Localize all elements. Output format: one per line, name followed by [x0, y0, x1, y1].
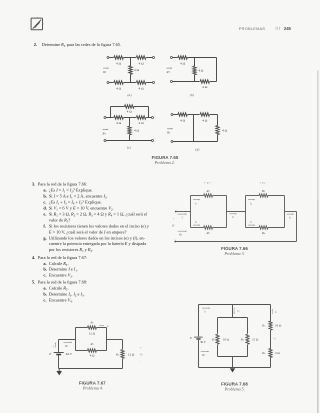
svg-text:4 Ω: 4 Ω	[139, 61, 145, 65]
fig7.65(a) resistor 4ohm middle vertical	[129, 66, 132, 75]
fig7.65(b) top-left terminal	[170, 57, 172, 59]
fig7.65(c) right terminal main row	[152, 117, 154, 119]
svg-text:3.: 3.	[32, 182, 35, 187]
fig7.65(a) bottom wire left	[109, 82, 114, 84]
svg-text:a.: a.	[43, 261, 46, 266]
fig7.66 exit wire	[285, 211, 297, 213]
fig7.67 top wire from source	[59, 339, 76, 341]
exercise pencil icon box	[31, 18, 42, 30]
fig7.65(a) middle vertical wire lower	[130, 74, 132, 82]
fig7.67 bottom wire	[59, 368, 123, 370]
svg-text:36 V: 36 V	[200, 340, 207, 344]
fig7.65(b) bottom-left terminal	[170, 81, 172, 83]
fig7.66 bottom terminal	[174, 241, 176, 243]
fig7.68 resistor R3 10ohm	[269, 321, 272, 330]
fig7.68 outer left edge upper wire	[198, 305, 200, 337]
fig7.65(c) resistor 4ohm middle vertical	[128, 126, 131, 135]
svg-text:Calcule RT.: Calcule RT.	[49, 261, 69, 267]
fig7.68 inner block left edge upper	[217, 318, 219, 334]
fig7.65(a) top wire middle	[124, 57, 137, 59]
fig7.67 ground arrow below battery	[58, 369, 60, 372]
fig7.66 right block right edge	[284, 196, 286, 228]
fig7.66 RT arrow label	[178, 230, 187, 232]
fig7.65(d) top wire left	[173, 114, 178, 116]
fig7.67 block left edge	[75, 328, 77, 351]
fig7.65(b) RT label	[167, 67, 173, 69]
svg-text:Para la red de la figura 7.68:: Para la red de la figura 7.68:	[38, 280, 87, 285]
fig7.65(a) resistor 4ohm bottom-left	[114, 81, 123, 84]
fig7.67 RT arrow label	[64, 341, 73, 343]
fig7.66 current I6 arrow	[287, 213, 294, 215]
fig7.66 right block bottom edge with resistor R4	[246, 227, 260, 229]
fig7.65(d) top-left terminal	[171, 114, 173, 116]
fig7.65(b) right edge wire	[216, 58, 218, 82]
svg-text:c.: c.	[43, 273, 46, 278]
svg-text:12 Ω: 12 Ω	[128, 352, 135, 356]
svg-text:Para la red de la figura 7.67:: Para la red de la figura 7.67:	[38, 255, 87, 260]
svg-text:e.: e.	[43, 212, 46, 217]
fig7.67 left edge upper wire	[58, 340, 60, 353]
fig7.66 source current I arrow	[178, 213, 187, 215]
fig7.68 outer right edge middle wire	[270, 330, 272, 349]
fig7.68 outer bottom wire	[199, 367, 271, 369]
svg-text:4.: 4.	[32, 255, 35, 260]
svg-text:4 Ω: 4 Ω	[116, 121, 122, 125]
fig7.65(c) middle vertical wire upper	[129, 118, 131, 127]
svg-text:5.: 5.	[32, 280, 35, 285]
fig7.65(b) top wire to corner	[187, 57, 216, 59]
svg-text:12 Ω: 12 Ω	[89, 332, 96, 336]
svg-text:d.: d.	[43, 206, 47, 211]
svg-text:valor de R5?: valor de R5?	[49, 217, 70, 223]
fig7.65(b) resistor 4ohm middle vertical	[193, 66, 196, 75]
fig7.65(d) resistor 4ohm top-left	[178, 113, 187, 116]
running head separator	[275, 27, 278, 30]
page right-edge shadow line	[317, 71, 318, 413]
fig7.65(d) top wire middle	[188, 114, 200, 116]
svg-text:f.: f.	[43, 223, 46, 228]
fig7.66 current I3 arrow	[230, 213, 237, 215]
svg-text:Si los resistores tienen los v: Si los resistores tienen los valores dad…	[49, 223, 150, 228]
fig7.68 current I2 arrow	[271, 309, 273, 314]
svg-text:a.: a.	[43, 286, 46, 291]
svg-text:Problema 5.: Problema 5.	[224, 386, 245, 391]
svg-text:por los resistores R1 y R2.: por los resistores R1 y R2.	[49, 247, 93, 253]
svg-text:4 Ω: 4 Ω	[139, 121, 145, 125]
svg-text:4 Ω: 4 Ω	[116, 61, 122, 65]
fig7.66 feed wire	[176, 211, 191, 213]
fig7.68 RT arrow label	[201, 350, 209, 352]
fig7.68 resistor R1 10ohm	[216, 334, 219, 344]
fig7.65(c) resistor 4ohm main-right	[136, 116, 145, 119]
fig7.65(b) bottom wire right	[210, 81, 217, 83]
fig7.65(a) bottom-right terminal	[153, 82, 155, 84]
svg-text:+ V2 −: + V2 −	[259, 181, 267, 185]
fig7.67 source current I arrow	[54, 343, 56, 348]
svg-text:Encuentre V4.: Encuentre V4.	[49, 297, 73, 303]
fig7.66 left block bottom edge with resistor R2	[191, 227, 204, 229]
fig7.65(d) top wire to corner	[210, 114, 218, 116]
fig7.68 bottom stub with arrow	[232, 357, 234, 368]
fig7.66 connecting wire between blocks	[227, 211, 246, 213]
fig7.66 left block left edge	[190, 196, 192, 228]
fig7.66 current I1 arrow	[193, 199, 200, 201]
fig7.65(a) top wire right	[146, 57, 152, 59]
svg-text:4 Ω: 4 Ω	[202, 85, 208, 89]
fig7.67 block bottom edge with resistor R2 4ohm	[76, 350, 88, 352]
svg-text:c.: c.	[43, 200, 46, 205]
fig7.66 right return wire down	[296, 212, 298, 242]
fig7.65(c) loop right vertical	[148, 107, 150, 118]
fig7.65(b) vertical resistor wire lower	[194, 75, 196, 82]
svg-text:¿Es I = I1 = I2? Explique.: ¿Es I = I1 = I2? Explique.	[49, 188, 93, 194]
fig7.68 inner block right edge upper	[247, 318, 249, 334]
fig7.65(b) top wire left	[172, 57, 178, 59]
svg-text:10 Ω: 10 Ω	[275, 324, 282, 328]
fig7.66 top feed terminal	[175, 211, 177, 213]
svg-text:+ V1 −: + V1 −	[204, 181, 212, 185]
fig7.65(d) middle vertical wire	[193, 115, 195, 142]
fig7.65(c) main wire middle	[124, 117, 137, 119]
fig7.65(b) resistor 4ohm top	[178, 56, 187, 59]
svg-text:4 Ω: 4 Ω	[116, 86, 122, 90]
fig7.65(d) right edge lower wire	[217, 135, 219, 142]
svg-text:Calcule RT.: Calcule RT.	[49, 286, 69, 292]
svg-text:4 Ω: 4 Ω	[139, 86, 145, 90]
fig7.65(a) top wire left	[109, 57, 114, 59]
svg-text:4 Ω: 4 Ω	[127, 110, 133, 114]
svg-text:15 Ω: 15 Ω	[252, 337, 259, 341]
fig7.65(b) vertical resistor wire upper	[194, 58, 196, 67]
svg-text:64 V: 64 V	[66, 352, 73, 356]
fig7.68 outer left edge lower wire	[198, 340, 200, 368]
svg-text:4 Ω: 4 Ω	[90, 353, 95, 357]
svg-text:Problema 3.: Problema 3.	[224, 251, 245, 256]
fig7.68 outer right edge lower wire	[270, 357, 272, 367]
fig7.65(b) bottom wire left	[172, 81, 199, 83]
fig7.65(a) top-left terminal	[107, 57, 109, 59]
fig7.66 current I4 arrow	[248, 199, 255, 201]
svg-text:Para la red de la figura 7.66:: Para la red de la figura 7.66:	[38, 182, 87, 187]
svg-text:c.: c.	[43, 297, 46, 302]
svg-text:b.: b.	[43, 291, 47, 296]
fig7.65(c) middle vertical wire lower	[129, 135, 131, 141]
svg-text:245: 245	[284, 26, 292, 31]
svg-text:4 Ω: 4 Ω	[180, 119, 186, 123]
fig7.65(a) resistor 4ohm bottom-right	[136, 81, 145, 84]
svg-text:Problema 2.: Problema 2.	[154, 160, 175, 165]
fig7.68 inner block right edge lower	[247, 345, 249, 357]
fig7.68 outer right edge upper wire	[270, 305, 272, 322]
fig7.68 battery E 36V	[194, 336, 202, 338]
fig7.65(c) resistor 4ohm main-left	[114, 116, 123, 119]
fig7.68 inner block bottom edge	[218, 356, 248, 358]
svg-text:2 Ω: 2 Ω	[275, 351, 280, 355]
fig7.65(c) main wire left	[106, 117, 114, 119]
fig7.65(a) bottom wire middle	[124, 82, 137, 84]
pencil diagonal inside icon	[33, 20, 41, 29]
svg-text:4 Ω: 4 Ω	[180, 61, 186, 65]
svg-text:4 Ω: 4 Ω	[134, 129, 140, 133]
fig7.66 right block top edge with resistor R3	[246, 195, 260, 197]
fig7.66 bottom return wire	[175, 241, 296, 243]
fig7.66 right block left edge	[245, 196, 247, 228]
fig7.68 resistor R2 15ohm	[246, 334, 249, 344]
fig7.65(a) top-right terminal	[153, 57, 155, 59]
svg-text:4 Ω: 4 Ω	[222, 128, 228, 132]
fig7.65(c) RT label	[103, 128, 109, 130]
svg-text:4 Ω: 4 Ω	[134, 68, 140, 72]
svg-text:cuentre la potencia entregada: cuentre la potencia entregada por la bat…	[49, 241, 146, 246]
fig7.65(d) RT label	[167, 128, 173, 130]
fig7.68 resistor R4 2ohm	[269, 349, 272, 358]
svg-text:Encuentre V3.: Encuentre V3.	[49, 273, 73, 279]
fig7.65(d) bottom-left terminal	[171, 141, 173, 143]
fig7.67 left edge lower wire	[58, 355, 60, 368]
fig7.67 battery E 64V	[54, 352, 64, 354]
fig7.67 right edge upper wire	[122, 340, 124, 350]
svg-text:Problema 4.: Problema 4.	[82, 385, 103, 390]
svg-text:Determine RT para las redes de: Determine RT para las redes de la figura…	[42, 42, 121, 48]
svg-text:¿Es I1 + I2 = I4 + I5? Expliqu: ¿Es I1 + I2 = I4 + I5? Explique.	[49, 200, 102, 206]
fig7.65(c) loop top edge with resistor	[111, 106, 125, 108]
fig7.68 top stub to inner block	[232, 305, 234, 318]
fig7.65(d) resistor 4ohm right vertical	[216, 126, 219, 135]
fig7.65(b) resistor 4ohm bottom	[200, 80, 209, 83]
fig7.65(c) loop left vertical	[110, 107, 112, 118]
fig7.65(a) middle vertical wire upper	[130, 58, 132, 66]
fig7.68 outer top wire	[199, 304, 271, 306]
fig7.67 block top edge with resistor R1 12ohm	[76, 327, 88, 329]
fig7.67 right edge lower wire	[122, 359, 124, 369]
svg-text:4 Ω: 4 Ω	[198, 69, 204, 73]
fig7.65(a) RT label	[103, 67, 109, 69]
fig7.68 current I1 arrow	[202, 307, 210, 309]
fig7.65(d) resistor 4ohm top-right	[200, 113, 209, 116]
fig7.65(a) resistor 4ohm top-right	[136, 56, 145, 59]
fig7.68 inner block top edge	[218, 317, 248, 319]
svg-text:g.: g.	[43, 235, 46, 240]
fig7.65(a) resistor 4ohm top-left	[114, 56, 123, 59]
fig7.65(a) bottom wire right	[146, 82, 152, 84]
fig7.65(a) bottom-left terminal	[107, 82, 109, 84]
fig7.68 inner block left edge lower	[217, 345, 219, 357]
svg-text:PROBLEMAS: PROBLEMAS	[239, 26, 266, 31]
svg-text:b.: b.	[43, 194, 47, 199]
fig7.67 resistor R3 12ohm vertical	[121, 350, 124, 359]
svg-text:10 Ω: 10 Ω	[223, 337, 230, 341]
fig7.65(c) bottom-right terminal	[152, 140, 154, 142]
fig7.65(c) bottom-left terminal	[104, 140, 106, 142]
fig7.66 left block right edge	[226, 196, 228, 228]
fig7.66 left block top edge with resistor R1	[191, 195, 204, 197]
fig7.65(d) right edge upper wire	[217, 115, 219, 126]
fig7.65(d) bottom wire	[173, 141, 218, 143]
fig7.67 block right edge	[106, 328, 108, 351]
fig7.65(c) main wire right	[146, 117, 151, 119]
svg-text:2.: 2.	[34, 42, 37, 47]
svg-text:a.: a.	[43, 188, 46, 193]
fig7.67 exit wire right	[107, 339, 123, 341]
svg-text:Determine I e I1.: Determine I e I1.	[49, 267, 78, 273]
fig7.65(c) left terminal main row	[104, 117, 106, 119]
fig7.65(c) bottom wire	[106, 140, 152, 142]
fig7.67 current I1 arrow	[99, 325, 104, 327]
svg-text:b.: b.	[43, 267, 47, 272]
svg-text:4 Ω: 4 Ω	[202, 119, 208, 123]
fig7.68 current I3 arrow	[233, 308, 235, 314]
